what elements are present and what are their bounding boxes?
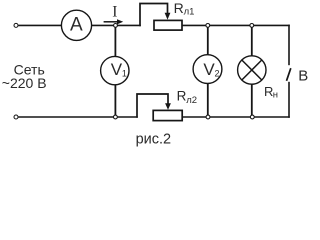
svg-text:R: R xyxy=(177,89,187,104)
svg-text:R: R xyxy=(174,0,184,16)
svg-text:I: I xyxy=(112,4,117,21)
svg-text:л2: л2 xyxy=(186,95,197,106)
svg-text:2: 2 xyxy=(215,69,220,79)
svg-text:л1: л1 xyxy=(184,7,195,18)
svg-text:н: н xyxy=(273,90,278,101)
svg-text:~220 В: ~220 В xyxy=(2,75,47,91)
svg-text:1: 1 xyxy=(122,69,127,79)
svg-text:В: В xyxy=(298,67,308,84)
svg-text:рис.2: рис.2 xyxy=(136,132,172,148)
svg-text:A: A xyxy=(70,15,83,36)
